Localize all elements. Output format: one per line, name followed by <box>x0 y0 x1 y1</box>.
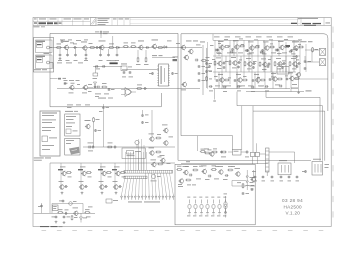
inner box top y=135.7 <box>181 135 233 137</box>
ic U1 equalizer <box>159 64 169 86</box>
right section long verticals <box>207 42 209 89</box>
wire vertical x=320 to connector <box>319 97 321 160</box>
connector box label <box>34 68 41 71</box>
capacitor C7 pair <box>95 65 97 68</box>
transistor Q11 <box>83 85 87 89</box>
transistor Q47 output stage <box>290 76 294 80</box>
transistor Q74 mute stage <box>116 171 120 175</box>
capacitor C41 stack <box>295 48 298 50</box>
wire y=160.3 long <box>178 159 311 161</box>
wire loop in box B <box>232 180 246 182</box>
wire y=66.4 <box>93 65 122 67</box>
svg-text:03 28 94: 03 28 94 <box>282 198 303 203</box>
capacitor C11 <box>146 46 148 49</box>
wire vertical x=206.8 <box>206 48 208 88</box>
power rectifier components <box>242 184 244 187</box>
relay contact square A <box>251 152 255 156</box>
net label on bus 2 <box>306 90 312 91</box>
text between jacks <box>44 52 50 55</box>
capacitor C23 <box>94 129 97 131</box>
speaker SP1 <box>320 48 326 55</box>
transistor Q10 <box>70 85 74 89</box>
capacitor column x=206 <box>205 62 208 64</box>
capacitor C73 <box>63 216 66 218</box>
input jack J1 box <box>36 40 53 53</box>
transistor Q7 <box>189 49 193 53</box>
resistor R82 <box>86 212 90 214</box>
decoupling capacitors under input chain <box>59 49 61 54</box>
transistor Q9 <box>182 82 186 86</box>
transistor Q26 <box>164 128 168 132</box>
marks near box right edge <box>251 184 255 187</box>
resistor R80 <box>59 212 63 214</box>
transistor Q46 output stage <box>273 77 277 81</box>
wire bus y=105.7 right <box>237 105 323 107</box>
volume control VR1 <box>121 66 127 71</box>
op-amp U2 <box>125 88 132 97</box>
svg-text:HA2500: HA2500 <box>284 204 303 209</box>
diode D2 <box>164 46 166 49</box>
tape head block label <box>34 157 44 160</box>
wire column x=101 <box>100 163 102 190</box>
capacitor column x=199 <box>198 65 201 67</box>
wire y=213 power <box>34 212 95 214</box>
diode D1 <box>117 46 119 49</box>
bias text row <box>57 62 62 65</box>
transistor Q32 amp stage <box>235 45 239 49</box>
power transformer box <box>53 205 59 211</box>
input connector box <box>34 38 54 73</box>
relay RL2 on loop <box>69 202 73 206</box>
transistor Q31 amp stage <box>220 45 224 49</box>
text row under y88 <box>95 93 101 96</box>
transistor Q75 switch stage <box>60 185 64 189</box>
power text row <box>86 216 91 219</box>
record block label <box>65 110 73 113</box>
right section label row <box>292 40 299 43</box>
transistor Q72 mute stage <box>82 171 86 175</box>
transistor Q37 driver stage <box>218 61 222 65</box>
transistor Q8 <box>184 55 188 59</box>
relay box K1 <box>233 150 242 156</box>
transistor Q2 <box>83 46 87 50</box>
bottom row right section <box>209 85 211 88</box>
transistor Q44 <box>297 73 301 77</box>
transistor Q33 amp stage <box>250 46 254 50</box>
transistor Q4 <box>139 45 143 49</box>
left edge label column <box>206 56 210 59</box>
right section box top <box>181 33 324 35</box>
wire y=147 to bias osc <box>83 146 175 148</box>
title block drawing number HA2500 <box>34 22 37 23</box>
connector CN2 <box>278 163 291 175</box>
wire vertical rail x=181 <box>180 34 182 136</box>
diode chain D51 <box>246 176 248 178</box>
resistor R11 <box>124 46 128 48</box>
electrolytic capacitor bank <box>189 200 191 204</box>
top-left block outline <box>50 32 178 34</box>
wire bus y=88 <box>57 87 200 89</box>
erase head block <box>65 138 80 155</box>
text specks above record block <box>67 104 73 107</box>
wire bus y=88.7 right <box>213 88 290 90</box>
title block right cells <box>296 18 298 26</box>
resistor R83 <box>71 216 73 219</box>
transistor Q73 mute stage <box>102 171 106 175</box>
net label on bus 1 <box>291 88 298 89</box>
capacitor C16 <box>144 87 146 90</box>
record block box <box>65 114 80 136</box>
bias oscillator components <box>206 152 210 154</box>
resistor R21 <box>93 118 95 121</box>
power connector CN1 <box>312 162 323 176</box>
wire y=79 right <box>296 78 328 80</box>
resistor R1 <box>57 47 61 49</box>
wire vertical rail x=178 <box>177 33 179 160</box>
capacitor C51 <box>246 151 248 154</box>
input jack J2 terminal <box>47 61 50 64</box>
transistor Q71 mute stage <box>62 171 66 175</box>
title block small text entries <box>34 18 37 21</box>
resistor R25 <box>201 151 205 153</box>
transistor Q39 driver stage <box>248 62 252 66</box>
selector fan wires <box>122 179 125 195</box>
wire vertical x=93.4 <box>92 122 94 147</box>
test point TP1 <box>152 175 156 179</box>
left end of amp row <box>64 79 68 82</box>
inductor L1 dark <box>110 62 118 64</box>
transistor Q27 <box>164 141 168 145</box>
wire vertical x=322.5 to connector <box>322 106 324 161</box>
tape head block <box>40 111 60 156</box>
transistor Q35 amp stage <box>280 45 284 49</box>
transistor Q54 <box>236 172 240 176</box>
wire bus y=69.8 <box>122 69 159 71</box>
wire column x=152 <box>151 110 153 136</box>
transistor Q22 <box>86 124 90 128</box>
wire column x=61 <box>60 163 62 190</box>
capacitor C2 <box>96 46 98 49</box>
transistor Q5 <box>152 44 156 48</box>
transistor Q1 <box>64 45 68 49</box>
selector connector bar 1 <box>124 170 173 173</box>
resistor R3 <box>110 47 114 49</box>
right ruler tick marks <box>332 27 334 33</box>
resistor R16 <box>138 88 142 90</box>
wire grid right section <box>213 39 300 41</box>
resistor R54 <box>212 169 216 171</box>
resistor R52 <box>178 169 182 171</box>
note under title strip <box>34 26 40 27</box>
selector labels <box>128 201 142 204</box>
transistor Q41 driver stage <box>278 62 282 66</box>
resistor R41 <box>312 48 314 51</box>
zener cluster under <box>94 66 96 73</box>
preamp mid text <box>167 40 172 43</box>
resistor ladder under chain <box>137 50 139 58</box>
opto coupler U3 <box>277 67 289 75</box>
ground near Q44 <box>298 77 300 91</box>
head polygon <box>69 147 80 155</box>
capacitor C1b <box>61 40 64 42</box>
capacitor C24 <box>88 146 90 149</box>
right section text rows <box>214 36 220 39</box>
power feedback loop wire <box>52 203 83 205</box>
wire vertical x=103.3 <box>102 104 104 147</box>
resistor R55 <box>229 169 233 171</box>
wire y=163.4 long <box>181 162 268 164</box>
bias oscillator sub box <box>122 148 145 159</box>
transistor Q78 switch stage <box>114 185 118 189</box>
wire stub x=214.5 <box>214 89 216 100</box>
wire vertical x=324.8 to connector <box>324 111 326 161</box>
transistor Q24 cluster <box>150 151 154 155</box>
transistor Q23 cluster <box>150 137 154 141</box>
resistor R26 <box>213 151 217 153</box>
capacitor C22 <box>141 121 144 123</box>
bottom ruler tick marks <box>42 229 47 231</box>
capacitor C21 <box>141 114 144 116</box>
transistor Q53 <box>219 170 223 174</box>
wire vertical x=241.8 <box>241 106 243 150</box>
transistor Q38 driver stage <box>233 61 237 65</box>
capacitor C61 <box>304 170 307 172</box>
net label y=57.7 <box>152 57 175 59</box>
capacitor C12 <box>151 72 154 74</box>
transistor Q25 cluster <box>152 162 156 166</box>
transistor Q51 <box>184 170 188 174</box>
text specks lower left row <box>88 83 92 86</box>
wire column x=81 <box>80 163 82 190</box>
capacitor C1 <box>74 46 76 49</box>
resistor R53 <box>194 169 198 171</box>
transistor Q42 driver stage <box>293 62 297 66</box>
indicator label plate <box>106 199 112 203</box>
top-left block bottom edge <box>50 106 161 108</box>
transistor Q76 switch stage <box>80 185 84 189</box>
resistor R51 <box>222 151 226 153</box>
transistor Q61 <box>251 177 255 181</box>
small parts row y=178 <box>254 176 257 178</box>
selector top wires <box>125 152 127 170</box>
output section box <box>175 164 255 225</box>
capacitor C42 stack <box>304 60 307 62</box>
title block strip <box>33 25 331 27</box>
capacitor C15 <box>108 88 111 90</box>
wire bus y=111.1 right <box>253 110 325 112</box>
transistor Q44 output stage <box>238 78 242 82</box>
transistor Q6 <box>181 45 185 49</box>
capacitor C70 on loop <box>62 200 65 202</box>
transistor Q81 <box>74 211 78 215</box>
selector pin contacts <box>121 195 123 197</box>
resistor R12 <box>132 46 136 48</box>
transistor Q43 output stage <box>220 78 224 82</box>
capacitor C13 <box>171 72 174 74</box>
zener D82 <box>80 217 83 220</box>
tall capacitor C59 <box>225 196 227 201</box>
transistor Q3 <box>100 45 104 49</box>
wire vertical x=203 <box>202 45 204 95</box>
input jack J1 terminal <box>47 46 50 49</box>
wire bus y=91.6 right <box>246 91 304 93</box>
title block left cell dividers <box>37 18 39 26</box>
resistor R22 <box>108 146 112 148</box>
resistor R2 <box>91 47 95 49</box>
capacitor C5 top <box>100 31 102 36</box>
relay contact square B <box>255 152 259 156</box>
wire vertical x=253 to relay <box>252 111 254 152</box>
power supply label <box>40 226 49 227</box>
transistor Q77 switch stage <box>100 185 104 189</box>
wires in speaker box <box>305 49 320 51</box>
capacitor C71 <box>41 203 43 213</box>
input jack J2 box <box>36 55 53 69</box>
sheet border frame <box>33 18 331 227</box>
title block logo box <box>90 18 96 26</box>
wire bus y=163 <box>50 162 175 164</box>
capacitor C75 <box>65 212 67 215</box>
transistor Q52 <box>202 169 206 173</box>
wire column x=115 <box>114 163 116 190</box>
svg-text:V.1.20: V.1.20 <box>286 210 301 215</box>
wire vertical x=294.6 <box>294 152 296 163</box>
wire main signal path y=47.5 <box>50 47 202 49</box>
selector connector bar 2 <box>124 176 147 179</box>
transistor Q45 output stage <box>256 78 260 82</box>
stub component on left edge <box>50 78 58 80</box>
wire vertical x=197.7 <box>197 136 199 151</box>
wire bus y=97.4 right <box>266 96 320 98</box>
capacitor C72 <box>55 216 58 218</box>
transistor Q34 amp stage <box>265 46 269 50</box>
capacitor C14 <box>94 86 96 89</box>
speaker SP2 <box>320 59 326 66</box>
transistor Q40 driver stage <box>263 62 267 66</box>
right section scatter specks <box>210 44 214 47</box>
transistor Q28 cluster <box>161 158 165 162</box>
cluster Q55 <box>179 179 183 183</box>
resistor R15 <box>103 86 107 88</box>
transistor Q36 amp stage <box>294 46 298 50</box>
cable ladder symbol <box>266 148 270 172</box>
text row bottom band <box>196 178 201 181</box>
